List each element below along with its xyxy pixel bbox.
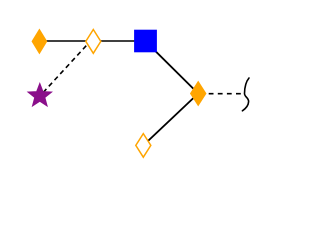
wire: linkage E-reducing-end dashed: [209, 93, 241, 95]
node F: unfilled (white) diamond monosaccharide with orange outline: [136, 134, 151, 158]
node D: purple star monosaccharide: [28, 83, 52, 106]
wire: linkage E-F solid: [143, 94, 198, 146]
reducing-end squiggle bracket: [242, 78, 249, 111]
wire: linkage A-B solid: [39, 40, 93, 42]
wire: linkage B-D dashed: [44, 46, 87, 92]
node C: blue square monosaccharide (GlcNAc): [134, 30, 157, 53]
node A: filled orange diamond monosaccharide: [32, 29, 47, 53]
wire: linkage B-C solid: [93, 40, 145, 42]
node E: filled orange diamond monosaccharide: [191, 82, 206, 106]
wire: linkage C-E solid: [145, 41, 198, 93]
node B: unfilled (white) diamond monosaccharide with orange outline: [86, 30, 101, 54]
